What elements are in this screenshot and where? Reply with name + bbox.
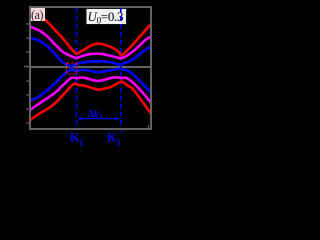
left axis minor ticks bbox=[26, 24, 29, 123]
U0=0.3 label box bbox=[86, 9, 127, 25]
delta-k arrowhead right bbox=[115, 117, 120, 121]
valence band lower (red) bbox=[29, 82, 151, 121]
red dashed zoom box bbox=[67, 63, 77, 74]
axes frame bbox=[30, 7, 151, 129]
bottom axis tick bbox=[148, 125, 150, 128]
zero-energy gridline bbox=[31, 66, 150, 68]
svg-text:(a): (a) bbox=[31, 8, 43, 22]
(a) panel label box bbox=[31, 8, 46, 22]
left axis major tick E=0 bbox=[24, 66, 29, 68]
delta-k arrowhead left bbox=[77, 117, 82, 121]
K1 vertical dashed line bbox=[76, 8, 78, 128]
K1' vertical dashed line bbox=[120, 8, 122, 128]
conduction band middle (magenta) bbox=[29, 26, 151, 58]
delta-k arrow shaft bbox=[79, 118, 118, 120]
conduction band upper (red) bbox=[30, 7, 151, 56]
svg-text:U0=0.3: U0=0.3 bbox=[88, 9, 124, 26]
valence band middle (magenta) bbox=[29, 77, 151, 111]
valence band upper (blue) bbox=[29, 69, 151, 101]
conduction band lower (blue) bbox=[29, 38, 151, 67]
